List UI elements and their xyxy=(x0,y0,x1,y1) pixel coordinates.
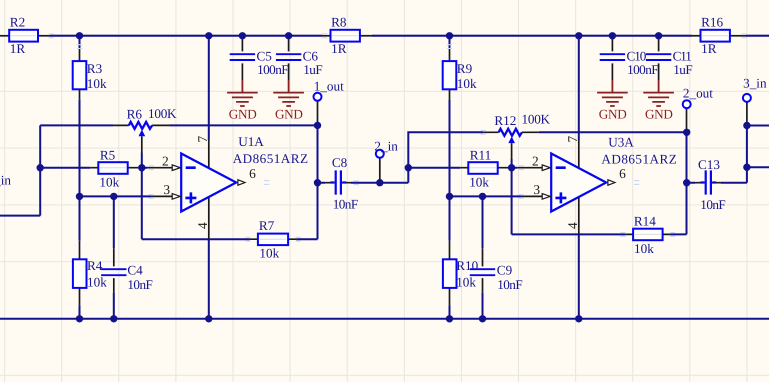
svg-text:1R: 1R xyxy=(701,41,717,56)
svg-text:1R: 1R xyxy=(331,41,347,56)
svg-text:100K: 100K xyxy=(522,111,551,126)
svg-text:R2: R2 xyxy=(10,15,25,30)
svg-text:GND: GND xyxy=(599,106,627,121)
svg-text:R12: R12 xyxy=(494,113,516,128)
svg-text:6: 6 xyxy=(249,166,256,181)
svg-text:1R: 1R xyxy=(10,41,26,56)
svg-text:3: 3 xyxy=(163,182,170,197)
svg-text:2_in: 2_in xyxy=(374,138,398,153)
svg-text:4: 4 xyxy=(565,222,580,229)
svg-text:3: 3 xyxy=(533,182,540,197)
svg-text:AD8651ARZ: AD8651ARZ xyxy=(601,152,677,167)
svg-text:GND: GND xyxy=(645,106,673,121)
svg-text:1uF: 1uF xyxy=(303,62,322,77)
svg-text:R14: R14 xyxy=(634,214,656,229)
svg-text:C13: C13 xyxy=(698,157,720,172)
svg-text:U1A: U1A xyxy=(238,134,264,149)
svg-text:10nF: 10nF xyxy=(497,277,522,292)
svg-text:C8: C8 xyxy=(332,155,348,170)
svg-text:100nF: 100nF xyxy=(257,62,288,77)
svg-text:R6: R6 xyxy=(127,106,143,121)
svg-text:2: 2 xyxy=(532,154,539,169)
svg-text:R7: R7 xyxy=(259,218,275,233)
svg-text:AD8651ARZ: AD8651ARZ xyxy=(233,151,309,166)
svg-text:C4: C4 xyxy=(127,262,143,277)
svg-text:10k: 10k xyxy=(87,275,107,290)
svg-text:10nF: 10nF xyxy=(127,277,152,292)
svg-text:100nF: 100nF xyxy=(627,62,658,77)
svg-text:6: 6 xyxy=(619,166,626,181)
svg-text:7: 7 xyxy=(195,135,210,142)
svg-text:R4: R4 xyxy=(87,258,103,273)
svg-text:R9: R9 xyxy=(457,61,473,76)
svg-text:1_out: 1_out xyxy=(314,78,344,93)
svg-text:10k: 10k xyxy=(87,76,107,91)
svg-text:U3A: U3A xyxy=(608,135,634,150)
svg-text:10nF: 10nF xyxy=(700,197,725,212)
svg-text:1_in: 1_in xyxy=(0,172,11,187)
svg-text:2: 2 xyxy=(162,154,169,169)
svg-text:GND: GND xyxy=(275,106,303,121)
svg-text:4: 4 xyxy=(195,222,210,229)
svg-text:1uF: 1uF xyxy=(673,62,692,77)
svg-text:10k: 10k xyxy=(99,175,119,190)
svg-text:R5: R5 xyxy=(100,147,116,162)
svg-text:10k: 10k xyxy=(457,76,477,91)
svg-text:10k: 10k xyxy=(634,241,654,256)
svg-text:R3: R3 xyxy=(87,61,103,76)
svg-text:3_in: 3_in xyxy=(743,75,767,90)
svg-text:R11: R11 xyxy=(470,147,492,162)
svg-text:C9: C9 xyxy=(497,262,513,277)
svg-text:100K: 100K xyxy=(148,106,177,121)
svg-text:GND: GND xyxy=(229,106,257,121)
svg-text:10nF: 10nF xyxy=(333,197,358,212)
svg-text:10k: 10k xyxy=(259,246,279,261)
svg-text:7: 7 xyxy=(565,135,580,142)
svg-text:R16: R16 xyxy=(701,15,723,30)
svg-text:R8: R8 xyxy=(331,15,347,30)
svg-text:10k: 10k xyxy=(469,175,489,190)
svg-text:2_out: 2_out xyxy=(683,86,713,101)
svg-text:10k: 10k xyxy=(456,275,476,290)
svg-text:R10: R10 xyxy=(456,258,478,273)
